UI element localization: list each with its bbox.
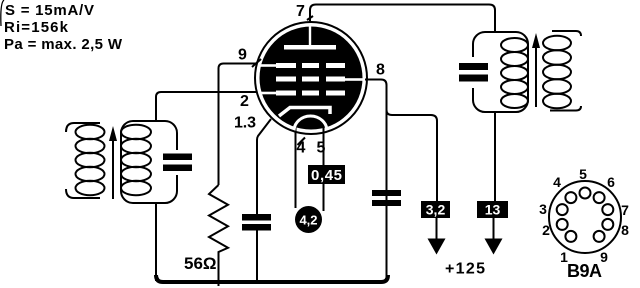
svg-text:3,2: 3,2	[426, 202, 446, 218]
svg-text:13: 13	[485, 202, 501, 218]
svg-text:6: 6	[607, 174, 615, 190]
svg-text:8: 8	[376, 62, 385, 79]
svg-text:9: 9	[238, 47, 247, 64]
svg-text:56Ω: 56Ω	[184, 254, 217, 273]
svg-text:2: 2	[240, 93, 249, 110]
svg-text:4: 4	[297, 140, 306, 157]
svg-text:1.3: 1.3	[234, 115, 256, 132]
svg-text:Pa = max. 2,5 W: Pa = max. 2,5 W	[4, 36, 123, 53]
svg-text:+125: +125	[445, 261, 485, 278]
svg-text:2: 2	[542, 222, 550, 238]
svg-text:3: 3	[539, 201, 547, 217]
svg-text:7: 7	[296, 3, 305, 20]
svg-text:Ri=156k: Ri=156k	[4, 19, 69, 36]
svg-text:4,2: 4,2	[299, 213, 317, 228]
svg-text:8: 8	[621, 222, 629, 238]
svg-text:B9A: B9A	[567, 261, 602, 281]
svg-text:4: 4	[553, 174, 561, 190]
svg-text:0,45: 0,45	[311, 167, 342, 184]
svg-text:7: 7	[621, 202, 629, 218]
svg-text:5: 5	[317, 140, 326, 157]
svg-text:5: 5	[579, 166, 587, 182]
svg-text:S = 15mA/V: S = 15mA/V	[5, 2, 94, 19]
